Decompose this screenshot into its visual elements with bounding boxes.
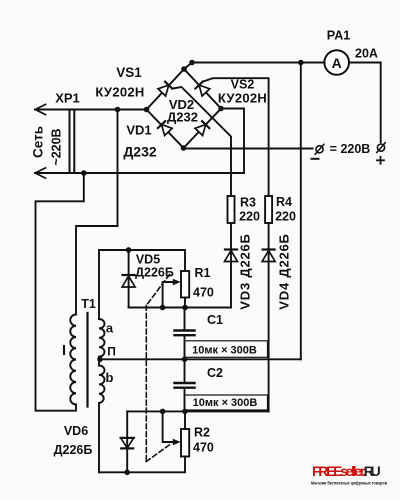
- svg-text:C1: C1: [207, 313, 223, 327]
- mechanical link dashed: [146, 275, 170, 462]
- svg-text:C2: C2: [207, 366, 223, 380]
- svg-text:20A: 20A: [355, 47, 378, 61]
- arrow mains bottom: [35, 168, 45, 178]
- svg-text:A: A: [332, 55, 342, 71]
- thyristor VS1: [158, 82, 172, 96]
- wire VS1 gate: [172, 87, 231, 196]
- transformer T1 secondary winding b: [99, 366, 105, 404]
- svg-text:КУ202Н: КУ202Н: [95, 84, 144, 99]
- svg-text:R3: R3: [240, 196, 256, 210]
- wire R3 to VD3: [230, 223, 232, 250]
- svg-text:220: 220: [239, 210, 260, 224]
- diode VD2: [195, 121, 209, 135]
- node plus rail tap: [298, 60, 304, 66]
- node bridge top: [181, 66, 187, 72]
- node R1 wiper: [160, 305, 166, 311]
- svg-text:T1: T1: [81, 297, 96, 311]
- wire R2 wiper: [163, 411, 175, 442]
- svg-text:10мк × 300В: 10мк × 300В: [193, 397, 258, 409]
- terminal plus: [377, 143, 386, 164]
- svg-text:470: 470: [193, 286, 214, 300]
- node R1/C1: [182, 305, 188, 311]
- svg-text:470: 470: [193, 441, 214, 455]
- wire center tap rail: [100, 358, 301, 360]
- svg-text:XP1: XP1: [55, 91, 80, 106]
- svg-text:VD3 Д226Б: VD3 Д226Б: [238, 233, 253, 309]
- svg-text:a: a: [106, 321, 114, 336]
- svg-text:= 220В: = 220В: [330, 142, 371, 156]
- wire secondary b bottom: [98, 403, 100, 472]
- wire bridge arm VD1: [147, 110, 184, 149]
- node VD6 bottom: [124, 470, 130, 476]
- wire R2 top: [184, 411, 186, 429]
- wire left rail to primary bottom: [36, 173, 84, 411]
- wire RC top: [99, 250, 185, 319]
- node top feed: [115, 107, 121, 113]
- svg-text:Д232: Д232: [123, 144, 157, 160]
- logo FREEseller.RU: [311, 463, 387, 487]
- wire mains top: [35, 109, 147, 111]
- svg-text:R4: R4: [276, 195, 292, 209]
- transformer T1 secondary winding a: [99, 319, 105, 366]
- label box C1 value: [185, 341, 268, 358]
- wire VD4 down to C2 node: [268, 262, 270, 412]
- wire PA1 to plus terminal: [349, 63, 381, 143]
- node center tap: [97, 357, 103, 363]
- wire output minus: [184, 148, 313, 150]
- wire C2 bottom bus: [127, 410, 268, 412]
- wire bridge top to plus bus: [184, 63, 324, 70]
- arrow R2 wiper: [173, 439, 181, 446]
- wire VD3 to RC node: [129, 262, 231, 308]
- ammeter PA1: [324, 50, 349, 75]
- svg-text:220: 220: [275, 210, 296, 224]
- capacitor C2: [175, 359, 195, 411]
- node bridge right: [218, 106, 224, 112]
- svg-text:b: b: [106, 370, 114, 385]
- resistor R3: [228, 196, 235, 223]
- svg-text:~220В: ~220В: [50, 128, 64, 165]
- node C1/C2 tap: [182, 357, 188, 363]
- wire bridge arm VS2: [184, 69, 221, 109]
- wire bridge right jog to mains: [221, 109, 244, 174]
- svg-text:VD5: VD5: [136, 253, 160, 267]
- node R2 wiper: [160, 409, 166, 415]
- transformer T1 core: [86, 313, 88, 407]
- resistor R2: [181, 429, 189, 457]
- arrow mains top: [35, 104, 45, 114]
- wire R1 bottom: [184, 298, 186, 308]
- svg-text:I: I: [62, 343, 66, 359]
- resistor R1: [181, 271, 189, 298]
- svg-text:VS1: VS1: [116, 65, 142, 80]
- capacitor C1: [175, 308, 195, 360]
- thyristor VS2: [195, 82, 209, 96]
- svg-text:VD6: VD6: [64, 424, 88, 438]
- svg-text:R2: R2: [194, 426, 210, 440]
- svg-text:R1: R1: [195, 266, 211, 280]
- svg-text:Сеть: Сеть: [31, 126, 46, 158]
- svg-text:Магазин бесплатных цифровых то: Магазин бесплатных цифровых товаров: [311, 480, 387, 487]
- wire R4 to VD4: [268, 223, 270, 250]
- diode VD1: [158, 121, 172, 135]
- svg-text:КУ202Н: КУ202Н: [218, 90, 267, 105]
- svg-text:Д226Б: Д226Б: [135, 266, 174, 280]
- diode VD3: [225, 250, 238, 263]
- svg-text:VD4 Д226Б: VD4 Д226Б: [277, 233, 292, 309]
- svg-text:Д232: Д232: [167, 110, 198, 125]
- diode VD6: [121, 411, 134, 472]
- arrow R1 wiper: [173, 279, 181, 286]
- node C2/R2: [182, 409, 188, 415]
- node bridge bottom: [181, 145, 187, 151]
- wire bridge arm VD2: [184, 109, 222, 149]
- terminal minus: [312, 144, 324, 159]
- wire bridge arm VS1: [147, 69, 185, 110]
- transformer T1 primary winding I: [70, 315, 76, 405]
- wire R2 bottom: [99, 457, 185, 473]
- label box C2 value: [185, 395, 268, 410]
- svg-text:FREEseller.RU: FREEseller.RU: [312, 463, 381, 479]
- svg-text:Д226Б: Д226Б: [54, 443, 93, 457]
- wire mains bottom: [35, 172, 244, 174]
- node VD5 top: [126, 247, 132, 253]
- diode VD5: [122, 250, 135, 308]
- wire T1 primary top feed: [76, 110, 118, 315]
- diode VD4: [262, 250, 275, 263]
- node bridge left: [144, 107, 150, 113]
- resistor R4: [265, 196, 272, 223]
- node top bus start: [189, 60, 195, 66]
- wire VS2 gate: [203, 78, 269, 196]
- node left rail: [81, 170, 87, 176]
- svg-text:П: П: [107, 345, 116, 359]
- svg-text:VD1: VD1: [126, 123, 151, 138]
- wire plus rail down: [300, 63, 302, 360]
- wire R1 wiper: [163, 282, 175, 308]
- svg-text:PA1: PA1: [327, 29, 350, 43]
- svg-text:10мк × 300В: 10мк × 300В: [192, 345, 257, 357]
- connector XP1: [69, 110, 71, 174]
